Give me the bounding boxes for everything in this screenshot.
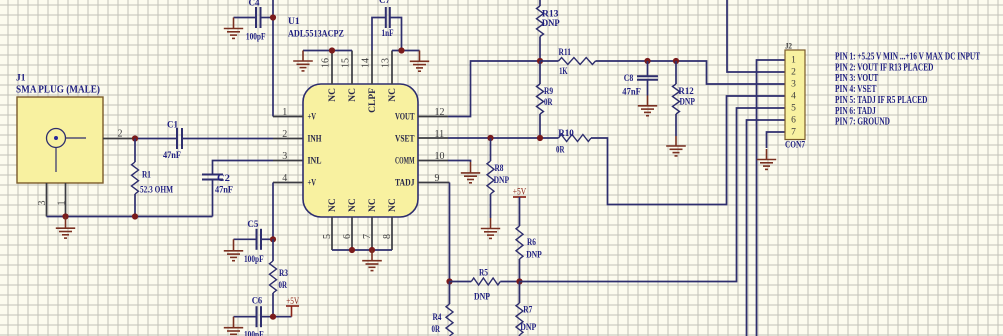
svg-text:NC: NC (328, 198, 338, 212)
C7 designator (379, 0, 390, 6)
svg-text:VOUT: VOUT (395, 113, 415, 123)
svg-text:R11: R11 (559, 48, 572, 58)
U1 pin 7 stub (371, 217, 373, 250)
svg-text:13: 13 (381, 58, 392, 68)
resistor R5 (471, 278, 500, 285)
svg-text:1K: 1K (559, 67, 568, 77)
resistor R3 (270, 239, 277, 316)
svg-text:J1: J1 (16, 74, 26, 84)
J2 pin 7 number (791, 128, 796, 138)
ground R12 (666, 136, 686, 156)
U1 pin 9 number (435, 173, 440, 184)
junction dot R1 top (132, 135, 138, 141)
U1 pin 4 stub (273, 182, 303, 184)
J2 designator (785, 42, 792, 51)
junction dot C4/+V (270, 14, 276, 20)
ground pins 5-8 (362, 250, 382, 271)
junction dot C8 top (644, 58, 650, 64)
connector J1 SMA body (17, 97, 103, 183)
capacitor C7 (386, 7, 390, 28)
svg-text:47nF: 47nF (163, 151, 181, 161)
U1 pin 5 stub (331, 217, 333, 250)
U1 pin 9 name (395, 179, 415, 189)
R7 designator (523, 306, 532, 316)
connector J2 body (785, 50, 805, 140)
resistor R1 (132, 139, 139, 217)
U1 pin 1 name (308, 113, 317, 123)
svg-text:PIN 4: VSET: PIN 4: VSET (835, 84, 877, 95)
svg-text:NC: NC (388, 198, 398, 212)
ground J2 pin7 (757, 149, 776, 169)
svg-text:R1: R1 (142, 171, 151, 181)
U1 pin 2 number (282, 129, 287, 140)
svg-text:DNP: DNP (474, 292, 490, 302)
wire U1 pins15-16 gnd (303, 50, 352, 52)
svg-text:NC: NC (348, 198, 358, 212)
resistor R7 (516, 282, 523, 336)
junction dot R5 left (446, 278, 452, 284)
svg-text:U1: U1 (288, 17, 300, 27)
J1 pin 3 number (37, 201, 48, 206)
svg-text:NC: NC (388, 88, 398, 102)
ground C8 (638, 96, 657, 116)
svg-text:R7: R7 (523, 306, 532, 316)
J1 pin 1 number (57, 201, 68, 206)
C7 value (382, 29, 394, 39)
svg-text:+V: +V (308, 113, 317, 123)
U1 pin 13 number (381, 58, 392, 68)
junction dot R1 bottom (132, 213, 138, 219)
wire U1 pin13 up (392, 50, 420, 52)
wire R13 node to R11 (540, 60, 559, 62)
U1 pin 8 number (382, 234, 393, 239)
junction dot R8 top (487, 135, 493, 141)
svg-text:ADL5513ACPZ: ADL5513ACPZ (288, 29, 344, 39)
svg-text:DNP: DNP (526, 251, 542, 261)
ground C4 (224, 18, 243, 39)
U1 pin 2 name (308, 135, 322, 145)
wire +V vertical to U1 pin1 (272, 0, 274, 117)
R4 value 0R (432, 325, 441, 335)
U1 part number (288, 29, 344, 39)
R1 designator (142, 171, 151, 181)
wire R11 to J2 pin3 (596, 61, 786, 84)
capacitor C1 (177, 128, 182, 149)
J1 designator label (16, 74, 26, 84)
U1 pin 16 name (328, 88, 338, 102)
svg-text:DNP: DNP (680, 98, 696, 108)
wire J2 pin1 net (757, 60, 786, 336)
svg-text:0R: 0R (432, 325, 441, 335)
U1 pin 3 name (308, 157, 322, 167)
junction dot C5 (270, 236, 276, 242)
note pin 5 (835, 95, 927, 106)
C1 value (163, 151, 181, 161)
U1 pin 6 name (348, 198, 358, 212)
svg-text:COMM: COMM (395, 157, 415, 167)
svg-text:6: 6 (791, 116, 796, 126)
svg-text:47nF: 47nF (215, 186, 233, 196)
U1 pin 1 stub (273, 116, 303, 118)
svg-text:DNP: DNP (520, 323, 536, 333)
ground pins 15 16 (293, 51, 313, 71)
R10 designator (558, 129, 574, 139)
svg-text:C8: C8 (624, 74, 634, 84)
J2 pin 1 number (791, 56, 796, 66)
svg-text:INH: INH (308, 135, 322, 145)
J1 pin 2 stub (103, 138, 133, 140)
capacitor C5 (257, 229, 262, 250)
svg-text:0R: 0R (556, 145, 565, 155)
capacitor C4 (256, 7, 261, 28)
U1 pin 5 name (328, 198, 338, 212)
svg-text:0R: 0R (279, 281, 288, 291)
svg-text:VSET: VSET (395, 135, 415, 145)
C1 designator (167, 121, 178, 131)
ground C5 (224, 239, 243, 260)
resistor R11 (559, 58, 596, 65)
U1 pin 3 stub (273, 160, 303, 162)
ground J1 (56, 217, 75, 239)
svg-text:15: 15 (341, 58, 352, 68)
U1 pin 4 name (308, 179, 317, 189)
ground R8 (481, 218, 500, 238)
U1 pin 8 name (388, 198, 398, 212)
R13 DNP label (542, 19, 560, 29)
svg-text:CON7: CON7 (785, 141, 805, 151)
ground C6 (224, 317, 243, 336)
U1 pin 9 stub (418, 182, 450, 184)
svg-text:NC: NC (348, 88, 358, 102)
svg-text:C2: C2 (217, 174, 230, 184)
svg-text:R6: R6 (527, 238, 536, 248)
junction dot C6 (270, 314, 276, 320)
R5 designator (479, 269, 488, 279)
junction dot pin6 (349, 247, 355, 253)
C4 value (246, 33, 266, 43)
svg-text:0R: 0R (544, 98, 553, 108)
C8 value (622, 87, 641, 97)
svg-text:100pF: 100pF (244, 331, 264, 336)
U1 pin 6 stub (351, 217, 353, 250)
resistor R10 (559, 135, 592, 142)
J2 pin 4 number (791, 92, 796, 102)
wire R6 node to J2 pin5 (520, 108, 786, 282)
U1 pin 15 number (341, 58, 352, 68)
U1 pin 2 stub (273, 138, 303, 140)
wire U1 pin10 COMM (448, 161, 471, 163)
svg-text:C7: C7 (379, 0, 390, 6)
svg-text:R10: R10 (558, 129, 574, 139)
svg-text:TADJ: TADJ (395, 179, 415, 189)
R11 designator (559, 48, 572, 58)
wire ground rail (47, 216, 213, 218)
C6 value (244, 331, 264, 336)
svg-text:PIN 7: GROUND: PIN 7: GROUND (835, 117, 890, 128)
svg-text:DNP: DNP (494, 176, 510, 186)
junction dot R6 bottom (516, 278, 522, 284)
R10 value 0R (556, 145, 565, 155)
U1 designator (288, 17, 300, 27)
power +5V mid (513, 196, 526, 198)
svg-text:DNP: DNP (542, 19, 560, 29)
R13 designator (542, 10, 559, 20)
svg-text:3: 3 (791, 80, 796, 90)
wire C2 to ground rail (212, 180, 214, 217)
U1 pin 10 name (395, 157, 415, 167)
C2 designator (217, 174, 230, 184)
wire U1 pin3 to C2 (213, 161, 274, 175)
U1 pin 14 number (361, 58, 372, 68)
note pin 6 (835, 106, 876, 117)
svg-text:J2: J2 (785, 42, 792, 51)
J2 pin 6 number (791, 116, 796, 126)
svg-text:14: 14 (361, 58, 372, 68)
svg-text:1: 1 (791, 56, 796, 66)
svg-text:C5: C5 (247, 220, 258, 230)
svg-text:3: 3 (282, 151, 287, 162)
wire C1 to U1 pin2 (183, 138, 273, 140)
U1 pin 15 stub (351, 51, 353, 85)
R6 designator (527, 238, 536, 248)
note pin 3 (835, 73, 879, 84)
U1 pin 11 stub (418, 137, 448, 139)
svg-text:R9: R9 (544, 87, 553, 97)
J1 comment label (16, 85, 100, 96)
note pin 7 (835, 117, 890, 128)
U1 pin 11 number (435, 129, 445, 140)
resistor R4 (446, 282, 453, 336)
wire C5 left (234, 238, 257, 240)
U1 pin 7 number (362, 234, 373, 239)
svg-text:PIN 3: VOUT: PIN 3: VOUT (835, 73, 879, 84)
U1 pin 5 number (322, 234, 333, 239)
U1 pin 13 stub (391, 51, 393, 85)
wire R5 to R6 node (500, 281, 519, 283)
J2 pin 5 number (791, 104, 796, 114)
svg-text:5: 5 (791, 104, 796, 114)
power +5V bottom (286, 306, 299, 317)
note pin 2 (835, 62, 933, 73)
resistor R13 (537, 0, 544, 61)
R12 DNP label (680, 98, 696, 108)
svg-text:PIN 5: TADJ IF R5 PLACED: PIN 5: TADJ IF R5 PLACED (835, 95, 927, 106)
junction dot pin7 (369, 247, 375, 253)
R6 DNP label (526, 251, 542, 261)
op-amp U1 body (303, 84, 418, 217)
C5 value (244, 255, 264, 265)
U1 pin 1 number (282, 107, 287, 118)
svg-text:SMA PLUG (MALE): SMA PLUG (MALE) (16, 85, 100, 96)
junction dot R13/R9 (537, 58, 543, 64)
note pin 1 (835, 51, 980, 62)
R12 designator (678, 87, 694, 97)
U1 pin 3 number (282, 151, 287, 162)
R8 designator (495, 164, 504, 174)
svg-text:C4: C4 (249, 0, 260, 9)
svg-text:NC: NC (328, 88, 338, 102)
wire U1 pin12 VOUT (448, 61, 541, 117)
svg-text:+5V: +5V (286, 297, 299, 307)
svg-text:7: 7 (791, 128, 796, 138)
R5 DNP label (474, 292, 490, 302)
wire C5 right (262, 238, 274, 240)
resistor R8 (487, 138, 494, 218)
J1 pin 2 number (118, 129, 123, 140)
U1 pin 14 name (368, 88, 378, 113)
capacitor C2 (202, 175, 223, 180)
U1 pin 12 name (395, 113, 415, 123)
junction dot R12 top (673, 58, 679, 64)
SMA coax symbol (47, 129, 87, 173)
wire C6 left (234, 316, 257, 318)
capacitor C6 (257, 306, 262, 327)
J1 pin 3 wire (46, 183, 48, 217)
R9 designator (544, 87, 553, 97)
svg-text:4: 4 (791, 92, 796, 102)
svg-text:1nF: 1nF (382, 29, 394, 39)
wire U1 pin9 TADJ (449, 183, 451, 282)
U1 pin 12 stub (418, 116, 448, 118)
wire U1 pin14 to C7 (372, 18, 385, 51)
J2 pin 3 number (791, 80, 796, 90)
note pin 4 (835, 84, 877, 95)
R1 value 52.3 OHM (140, 186, 173, 196)
svg-text:2: 2 (282, 129, 287, 140)
svg-text:+V: +V (308, 179, 317, 189)
R9 value 0R (544, 98, 553, 108)
U1 pin 10 stub (418, 160, 448, 162)
U1 pin 10 number (435, 151, 445, 162)
ground COMM (461, 162, 480, 183)
U1 pin 15 name (348, 88, 358, 102)
svg-text:R3: R3 (279, 269, 288, 279)
wire C6 right (262, 316, 292, 318)
svg-text:PIN 6: TADJ: PIN 6: TADJ (835, 106, 876, 117)
svg-text:52.3 OHM: 52.3 OHM (140, 186, 173, 196)
wire J2 pin2 net (727, 0, 785, 72)
svg-text:47nF: 47nF (622, 87, 641, 97)
wire U1 pins5-8 bus (332, 249, 392, 251)
U1 pin 4 number (282, 173, 287, 184)
svg-text:PIN 1: +5.25 V MIN ...+16 V MA: PIN 1: +5.25 V MIN ...+16 V MAX DC INPUT (835, 51, 980, 62)
J1 pin 1 wire (65, 183, 67, 217)
wire C7 to pin13 node (391, 18, 402, 51)
U1 pin 6 number (342, 234, 353, 239)
resistor R6 (516, 197, 523, 282)
R7 DNP label (520, 323, 536, 333)
U1 pin 12 number (435, 107, 445, 118)
+5V mid label (513, 188, 527, 198)
junction dot R9 bottom (537, 135, 543, 141)
svg-text:NC: NC (368, 198, 378, 212)
svg-text:R8: R8 (495, 164, 504, 174)
J2 footprint CON7 (785, 141, 805, 151)
wire J2 pin7 gnd (767, 132, 786, 148)
svg-text:R4: R4 (433, 313, 442, 323)
wire J1 pin2 to C1 (133, 138, 176, 140)
svg-text:INL: INL (308, 157, 322, 167)
junction dot gnd pin1 (62, 213, 68, 219)
R11 value 1K (559, 67, 568, 77)
svg-text:R5: R5 (479, 269, 488, 279)
svg-text:+5V: +5V (513, 188, 527, 198)
R3 value (279, 281, 288, 291)
U1 pin 16 number (321, 58, 332, 68)
wire C4 to +V line (261, 17, 273, 19)
wire R10 to J2 pin4 (591, 96, 785, 205)
svg-text:CLPF: CLPF (368, 88, 378, 113)
svg-text:100pF: 100pF (244, 255, 264, 265)
U1 pin 8 stub (391, 217, 393, 250)
wire U1 pin4 branch (272, 183, 274, 240)
wire TADJ to R5 (450, 281, 472, 283)
wire J2 pin6 net (747, 120, 786, 336)
C2 value (215, 186, 233, 196)
R8 DNP label (494, 176, 510, 186)
svg-text:C6: C6 (252, 297, 263, 307)
ground C7 (410, 51, 429, 72)
svg-text:PIN 2: VOUT IF R13 PLACED: PIN 2: VOUT IF R13 PLACED (835, 62, 933, 73)
R3 designator (279, 269, 288, 279)
resistor R9 (537, 61, 544, 138)
C6 designator (252, 297, 263, 307)
svg-text:2: 2 (791, 68, 796, 78)
U1 pin 7 name (368, 198, 378, 212)
resistor R12 (673, 61, 680, 136)
wire U1 pin11 VSET (448, 137, 559, 139)
capacitor C8 (637, 61, 658, 96)
J2 pin 2 number (791, 68, 796, 78)
C5 designator (247, 220, 258, 230)
U1 pin 11 name (395, 135, 415, 145)
svg-text:16: 16 (321, 58, 332, 68)
U1 pin 13 name (388, 88, 398, 102)
R4 designator (433, 313, 442, 323)
junction dot C7/pin13 (398, 47, 404, 53)
U1 pin 16 stub (331, 51, 333, 85)
junction dot pin16 (329, 47, 335, 53)
+5V bottom label (286, 297, 299, 307)
svg-text:100pF: 100pF (246, 33, 266, 43)
C4 designator (249, 0, 260, 9)
U1 pin 14 stub (371, 51, 373, 85)
wire +V rail to C4 (234, 17, 256, 19)
C8 designator (624, 74, 634, 84)
svg-text:R13: R13 (542, 10, 559, 20)
svg-text:R12: R12 (678, 87, 694, 97)
svg-text:C1: C1 (167, 121, 178, 131)
